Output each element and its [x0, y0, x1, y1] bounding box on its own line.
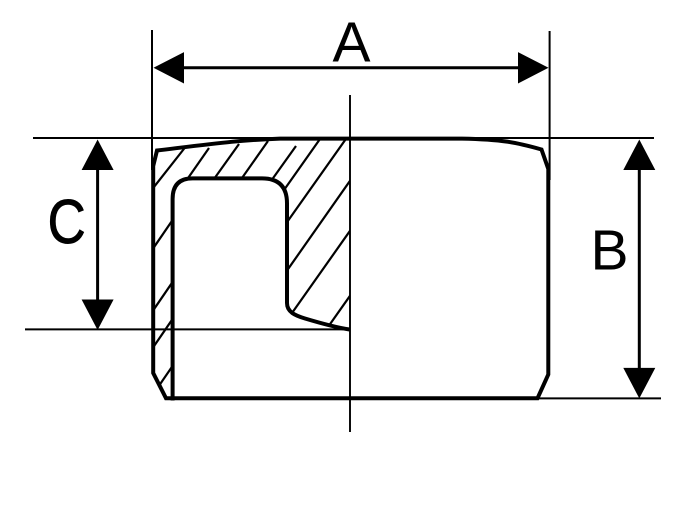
extension line right (dim A) — [549, 31, 551, 180]
svg-text:A: A — [332, 11, 370, 75]
extension line left (dim A) — [151, 30, 153, 170]
dimension B bottom arrowhead — [623, 368, 655, 399]
dimension C top arrowhead — [82, 140, 114, 171]
dimension B top arrowhead — [623, 140, 655, 171]
extension line thread depth (dim C bottom) — [25, 328, 350, 330]
dimension A left arrowhead — [154, 52, 185, 83]
dimension B line — [638, 146, 641, 392]
center line — [349, 95, 351, 432]
svg-text:C: C — [48, 188, 86, 257]
extension line bottom face (dim B bottom) — [538, 397, 661, 399]
svg-text:B: B — [590, 219, 628, 283]
dimension A line — [160, 66, 542, 69]
extension line top face (dims B and C) — [33, 137, 654, 139]
hatching of sectioned cap wall — [150, 136, 352, 393]
dimension C line — [96, 146, 99, 324]
cap outer profile — [153, 139, 548, 399]
dimension A right arrowhead — [518, 52, 549, 83]
bore / thread cavity profile — [173, 178, 350, 400]
dimension C bottom arrowhead — [82, 300, 114, 331]
